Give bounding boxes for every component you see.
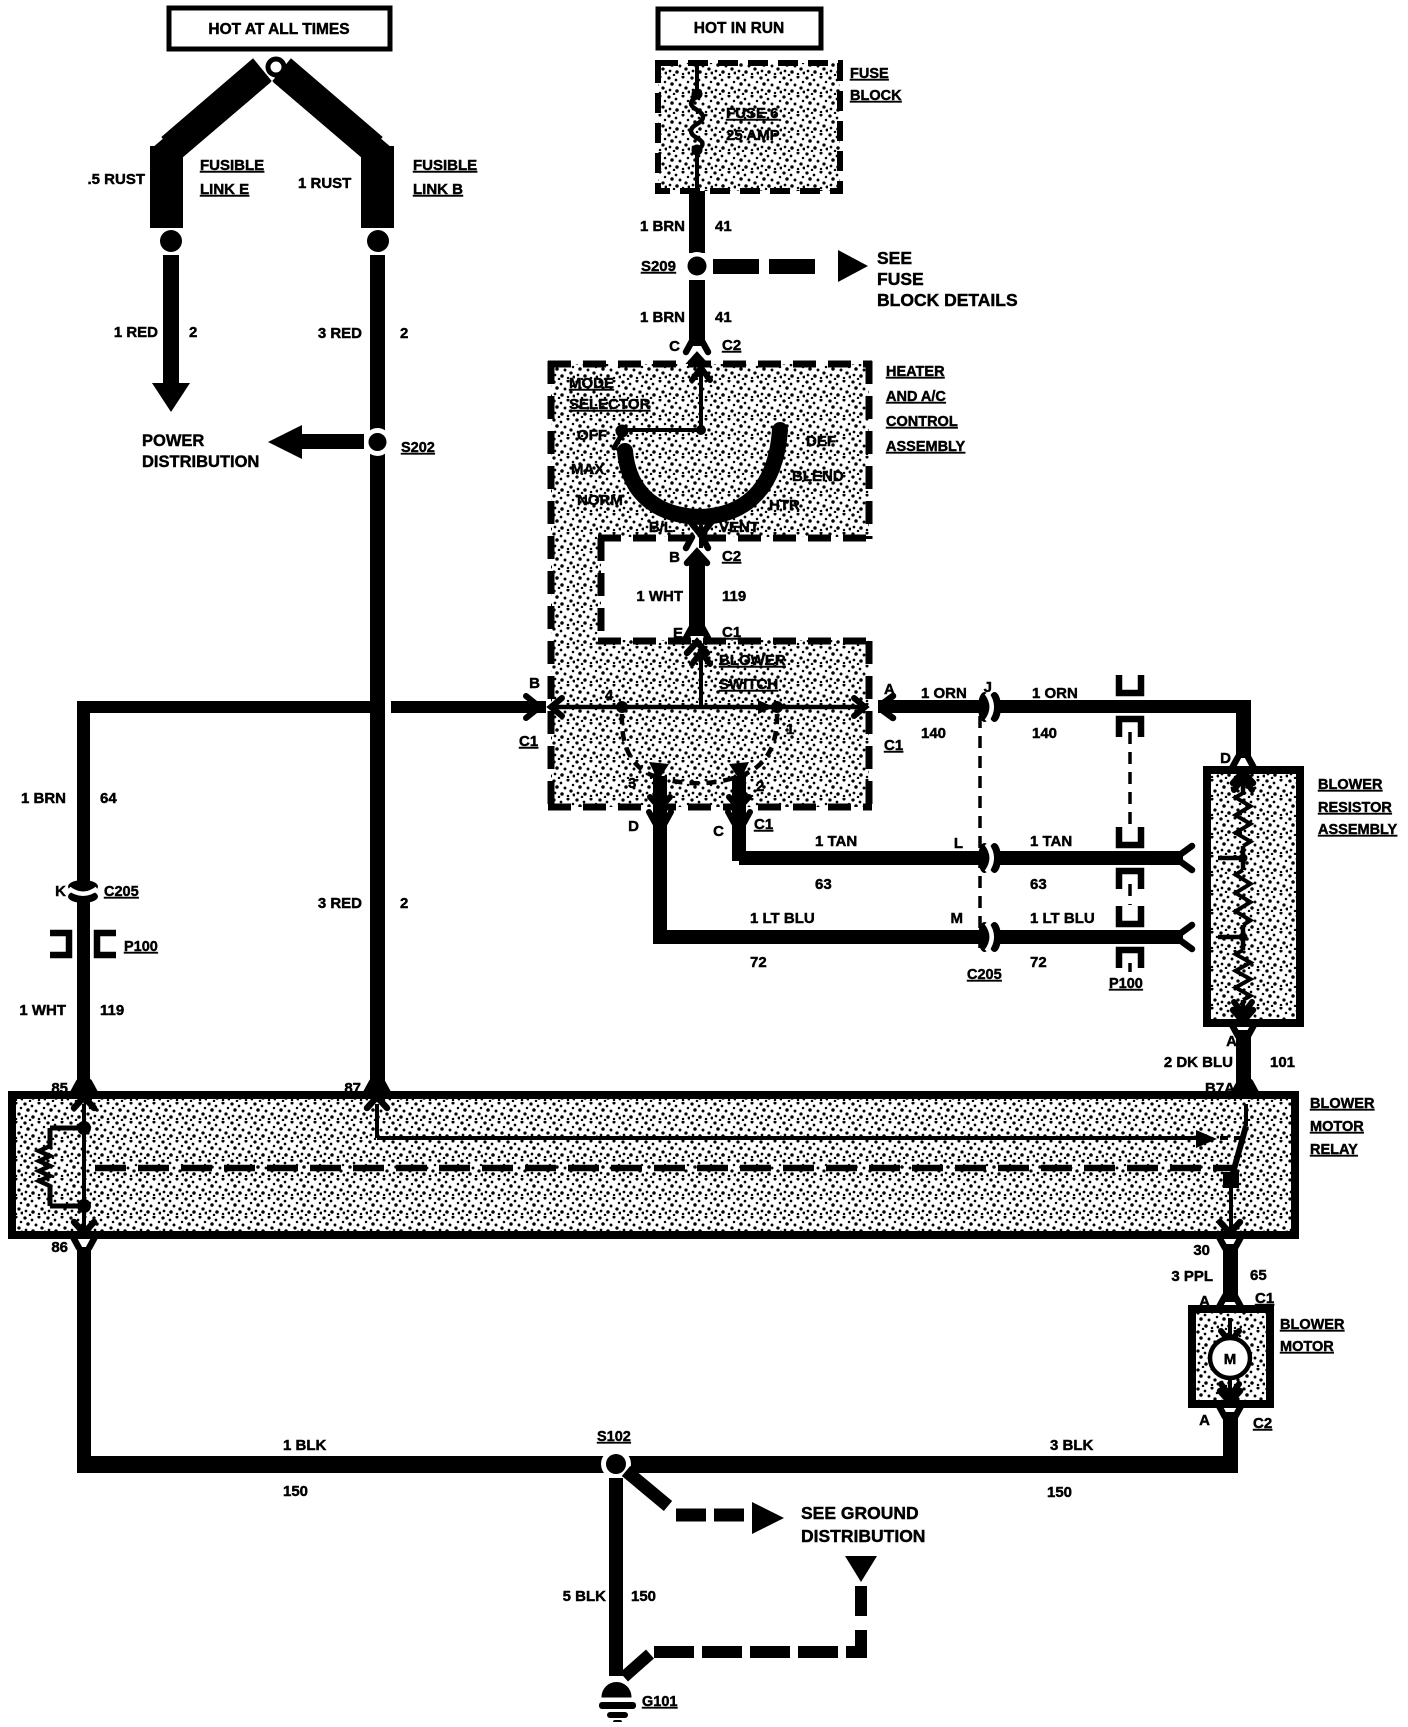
svg-text:1 ORN: 1 ORN bbox=[1032, 685, 1078, 702]
svg-text:1 LT BLU: 1 LT BLU bbox=[750, 910, 815, 927]
relay contact from B7A bbox=[1231, 1104, 1246, 1180]
svg-text:2 DK BLU: 2 DK BLU bbox=[1164, 1054, 1233, 1071]
label 5 BLK bbox=[563, 1588, 607, 1605]
fuse F6 25A bbox=[691, 89, 703, 192]
label 41 lower bbox=[715, 309, 732, 326]
svg-text:DISTRIBUTION: DISTRIBUTION bbox=[801, 1526, 925, 1546]
label P100 left bbox=[124, 939, 158, 955]
label 4 bbox=[605, 687, 614, 704]
fusible link E band bbox=[150, 59, 271, 228]
svg-text:S209: S209 bbox=[641, 258, 676, 275]
relay switch arrow bbox=[1196, 1130, 1217, 1148]
label 1 RUST bbox=[298, 175, 351, 192]
resistor junction B bbox=[1218, 925, 1248, 942]
relay coil junction bottom bbox=[77, 1199, 91, 1213]
connector P100 bracket at ORN bbox=[1119, 675, 1141, 737]
svg-text:DISTRIBUTION: DISTRIBUTION bbox=[142, 453, 259, 471]
fusible link B band bbox=[273, 59, 394, 228]
label C bbox=[669, 338, 680, 355]
svg-text:3: 3 bbox=[628, 775, 636, 792]
wire 1 BRN 41 lower bbox=[689, 280, 705, 346]
svg-text:A: A bbox=[884, 681, 895, 698]
label M bbox=[951, 910, 964, 927]
svg-text:A: A bbox=[1199, 1412, 1210, 1429]
svg-text:1 BRN: 1 BRN bbox=[21, 790, 66, 807]
blower motor pin A bottom connector bbox=[1219, 1391, 1241, 1417]
label 3 bbox=[628, 775, 636, 792]
label C205 left bbox=[104, 884, 139, 900]
wire 3 RED 2 bbox=[370, 255, 385, 1095]
svg-text:30: 30 bbox=[1193, 1242, 1210, 1259]
motor M circle bbox=[1210, 1338, 1250, 1378]
label BLOWER MOTOR RELAY bbox=[1310, 1096, 1375, 1158]
svg-text:BLOCK: BLOCK bbox=[850, 88, 902, 104]
svg-text:150: 150 bbox=[283, 1483, 308, 1500]
svg-text:1 WHT: 1 WHT bbox=[636, 588, 683, 605]
relay coil bbox=[39, 1128, 84, 1206]
ground G101 symbol bbox=[599, 1683, 636, 1725]
svg-text:25 AMP: 25 AMP bbox=[726, 127, 780, 144]
label 30 bbox=[1193, 1242, 1210, 1259]
svg-text:HOT IN RUN: HOT IN RUN bbox=[694, 20, 784, 37]
svg-text:BLOWER: BLOWER bbox=[1310, 1096, 1375, 1112]
switch position 2 arrow bbox=[729, 762, 749, 781]
svg-text:140: 140 bbox=[1032, 725, 1057, 742]
switch position 4 contact bbox=[616, 701, 628, 713]
connector C2 pin C bbox=[686, 341, 708, 367]
label VENT bbox=[719, 519, 759, 536]
resistor pin B chevron bbox=[1212, 928, 1223, 946]
svg-text:VENT: VENT bbox=[719, 519, 759, 536]
svg-text:SEE GROUND: SEE GROUND bbox=[801, 1503, 919, 1523]
svg-text:G101: G101 bbox=[642, 1694, 677, 1710]
svg-text:SWITCH: SWITCH bbox=[719, 676, 778, 693]
svg-text:119: 119 bbox=[100, 1002, 124, 1019]
wire 1 LT BLU 72 bbox=[653, 930, 1183, 944]
blower switch pin A chevron bbox=[854, 698, 865, 716]
label C1 switch right bbox=[884, 737, 903, 754]
svg-text:NORM: NORM bbox=[577, 492, 623, 509]
splice S102 bbox=[601, 1449, 631, 1479]
relay pin B7A connector bbox=[1234, 1082, 1256, 1108]
svg-text:1: 1 bbox=[786, 721, 794, 738]
connector A fork bbox=[882, 696, 893, 718]
resistor junction C bbox=[1218, 846, 1248, 863]
switch position 1 contact bbox=[758, 700, 783, 714]
label HEATER AND A/C CONTROL ASSEMBLY bbox=[886, 364, 966, 455]
svg-text:POWER: POWER bbox=[142, 432, 204, 450]
svg-text:5 BLK: 5 BLK bbox=[563, 1588, 607, 1605]
label B bbox=[669, 549, 680, 566]
svg-text:1 BRN: 1 BRN bbox=[640, 218, 685, 235]
wire 1 ORN 140 bbox=[878, 700, 1251, 758]
label 1 bbox=[786, 721, 794, 738]
label 85 bbox=[51, 1080, 68, 1097]
svg-text:140: 140 bbox=[921, 725, 946, 742]
blower resistor assembly box bbox=[1207, 770, 1300, 1023]
svg-text:SELECTOR: SELECTOR bbox=[569, 396, 651, 413]
svg-text:MAX: MAX bbox=[571, 461, 604, 478]
svg-text:C2: C2 bbox=[722, 548, 741, 565]
heater box left edge bbox=[548, 361, 555, 810]
label D bbox=[628, 818, 639, 835]
label C pin bbox=[713, 823, 724, 840]
svg-text:MODE: MODE bbox=[569, 375, 614, 392]
label 87 bbox=[344, 1080, 361, 1097]
svg-text:72: 72 bbox=[750, 954, 767, 971]
label 65 bbox=[1250, 1267, 1267, 1284]
svg-text:86: 86 bbox=[51, 1239, 68, 1256]
svg-text:87: 87 bbox=[344, 1080, 361, 1097]
svg-text:FUSE: FUSE bbox=[877, 269, 924, 289]
wire 5 BLK 150 bbox=[609, 1478, 623, 1676]
relay coil feed line bbox=[82, 1104, 86, 1230]
wire below K bbox=[0, 0, 1, 1]
svg-text:ASSEMBLY: ASSEMBLY bbox=[1318, 822, 1398, 838]
svg-text:119: 119 bbox=[722, 588, 746, 605]
dashed wire to ground distribution bbox=[626, 1471, 744, 1515]
connector P100 left bbox=[50, 933, 116, 955]
svg-text:C1: C1 bbox=[722, 624, 741, 641]
svg-text:P100: P100 bbox=[1109, 976, 1143, 992]
relay switch feed line bbox=[377, 1104, 1196, 1138]
label MODE SELECTOR bbox=[569, 375, 651, 413]
svg-text:FUSIBLE: FUSIBLE bbox=[200, 157, 264, 174]
label 1 ORN right bbox=[1032, 685, 1078, 702]
svg-text:C: C bbox=[669, 338, 680, 355]
svg-text:1 RED: 1 RED bbox=[114, 324, 158, 341]
blower switch bottom edge bbox=[548, 804, 872, 811]
label FUSE 6 25 AMP bbox=[726, 105, 780, 144]
label P100 right bbox=[1109, 976, 1143, 992]
svg-text:ASSEMBLY: ASSEMBLY bbox=[886, 439, 966, 455]
label BLOWER MOTOR bbox=[1280, 1317, 1345, 1355]
label SEE FUSE BLOCK DETAILS bbox=[877, 248, 1018, 310]
connector P100 line 3 bbox=[1128, 963, 1132, 972]
heater box top edge bbox=[548, 361, 872, 368]
label 150 left bbox=[283, 1483, 308, 1500]
switch B fork bbox=[526, 696, 536, 718]
label 1 WHT left bbox=[19, 1002, 66, 1019]
node battery feed ring bbox=[268, 59, 284, 75]
motor out arrow bbox=[1221, 1378, 1239, 1396]
svg-text:RESISTOR: RESISTOR bbox=[1318, 800, 1392, 816]
label box HOT IN RUN bbox=[658, 9, 821, 48]
svg-text:3 BLK: 3 BLK bbox=[1050, 1437, 1094, 1454]
label 1 RED bbox=[114, 324, 158, 341]
label 1 LT BLU left bbox=[750, 910, 815, 927]
label 1 ORN left bbox=[921, 685, 967, 702]
label K bbox=[55, 883, 66, 900]
heater box bottom edge upper bbox=[598, 535, 869, 542]
svg-text:1 TAN: 1 TAN bbox=[815, 833, 857, 850]
label C2 inner bbox=[722, 548, 741, 565]
svg-text:C205: C205 bbox=[967, 967, 1002, 983]
svg-text:C1: C1 bbox=[754, 816, 773, 833]
label 150 ground bbox=[631, 1588, 656, 1605]
label 1 BRN upper bbox=[640, 218, 685, 235]
motor feed arrow bbox=[1221, 1318, 1239, 1342]
svg-text:FUSE: FUSE bbox=[850, 66, 889, 82]
label C2 motor bbox=[1253, 1415, 1272, 1432]
connector C1 pin D bbox=[649, 797, 671, 823]
svg-text:1 ORN: 1 ORN bbox=[921, 685, 967, 702]
label 1 WHT inner bbox=[636, 588, 683, 605]
svg-text:1 BLK: 1 BLK bbox=[283, 1437, 327, 1454]
ground return dashed wire bbox=[624, 1586, 861, 1677]
relay pin 85 connector bbox=[73, 1082, 95, 1108]
relay pin 86 connector bbox=[73, 1222, 95, 1248]
svg-text:1 RUST: 1 RUST bbox=[298, 175, 351, 192]
resistor element 2 bbox=[1236, 858, 1251, 925]
svg-text:P100: P100 bbox=[124, 939, 158, 955]
label 119 inner bbox=[722, 588, 746, 605]
svg-text:C1: C1 bbox=[884, 737, 903, 754]
splice dot right bbox=[367, 230, 389, 252]
mode selector wire to OFF bbox=[624, 425, 706, 435]
heater a/c control assembly fill bbox=[551, 364, 869, 807]
connector C205 pin L bbox=[978, 843, 1001, 873]
relay contact pad bbox=[1223, 1172, 1239, 1188]
label C1 switch bbox=[754, 816, 773, 833]
svg-text:SEE: SEE bbox=[877, 248, 912, 268]
label C2 top bbox=[722, 337, 741, 354]
svg-text:1 TAN: 1 TAN bbox=[1030, 833, 1072, 850]
label 63 right bbox=[1030, 876, 1047, 893]
svg-text:A: A bbox=[1226, 1033, 1237, 1050]
svg-text:FUSE 6: FUSE 6 bbox=[726, 105, 779, 122]
svg-text:3 RED: 3 RED bbox=[318, 325, 362, 342]
wire blower switch B horizontal bbox=[77, 701, 546, 713]
label 72 right bbox=[1030, 954, 1047, 971]
svg-text:L: L bbox=[954, 835, 963, 852]
svg-text:.5 RUST: .5 RUST bbox=[87, 171, 145, 188]
blower switch feed arrow bbox=[692, 652, 710, 709]
relay pin 87 connector bbox=[366, 1082, 388, 1108]
svg-text:C205: C205 bbox=[104, 884, 139, 900]
label 3 RED lower bbox=[318, 895, 362, 912]
svg-text:B: B bbox=[669, 549, 680, 566]
connector P100 bracket at LT BLU bbox=[1119, 906, 1141, 968]
resistor chain top arrow bbox=[1234, 778, 1252, 795]
svg-text:C: C bbox=[713, 823, 724, 840]
resistor pin C chevron bbox=[1212, 849, 1223, 867]
label C205 right bbox=[967, 967, 1002, 983]
label BLEND bbox=[792, 468, 844, 485]
label 3 BLK bbox=[1050, 1437, 1094, 1454]
svg-text:BLOWER: BLOWER bbox=[1280, 1317, 1345, 1333]
svg-text:C2: C2 bbox=[722, 337, 741, 354]
svg-text:LINK B: LINK B bbox=[413, 181, 463, 198]
svg-text:64: 64 bbox=[100, 790, 117, 807]
label 1 BLK bbox=[283, 1437, 327, 1454]
label BLOWER RESISTOR ASSEMBLY bbox=[1318, 777, 1398, 838]
label G101 bbox=[642, 1694, 677, 1710]
label 150 right bbox=[1047, 1484, 1072, 1501]
svg-text:D: D bbox=[1220, 750, 1231, 767]
relay actuation dashed line bbox=[95, 1165, 1232, 1172]
splice S209 bbox=[683, 252, 711, 280]
svg-text:FUSIBLE: FUSIBLE bbox=[413, 157, 477, 174]
connector C1 pin E bbox=[686, 627, 708, 653]
svg-text:63: 63 bbox=[1030, 876, 1047, 893]
label 41 upper bbox=[715, 218, 732, 235]
connector C205 pin J bbox=[978, 692, 1001, 722]
label 101 bbox=[1270, 1054, 1295, 1071]
label 72 left bbox=[750, 954, 767, 971]
wire 1 WHT 119 inner bbox=[689, 556, 705, 636]
svg-text:C1: C1 bbox=[1255, 1290, 1274, 1307]
svg-text:150: 150 bbox=[631, 1588, 656, 1605]
svg-text:M: M bbox=[951, 910, 964, 927]
switch position 3 arrow bbox=[649, 762, 669, 781]
svg-text:M: M bbox=[1224, 1351, 1237, 1368]
resistor pin D connector bbox=[1232, 757, 1254, 783]
svg-text:S202: S202 bbox=[401, 440, 435, 456]
label 86 bbox=[51, 1239, 68, 1256]
wire 1 BRN 41 upper bbox=[689, 191, 705, 253]
connector P100 bracket at TAN bbox=[1119, 827, 1141, 889]
svg-text:AND A/C: AND A/C bbox=[886, 389, 946, 405]
label D resistor bbox=[1220, 750, 1231, 767]
label B7A bbox=[1205, 1080, 1235, 1097]
blower switch common wire bbox=[556, 705, 865, 710]
svg-text:D: D bbox=[628, 818, 639, 835]
wire 3 PPL 65 bbox=[1223, 1244, 1238, 1302]
svg-text:41: 41 bbox=[715, 309, 732, 326]
svg-text:2: 2 bbox=[189, 324, 197, 341]
svg-text:S102: S102 bbox=[597, 1429, 631, 1445]
mode selector feed arrow bbox=[692, 368, 710, 430]
label 63 left bbox=[815, 876, 832, 893]
svg-text:HTR: HTR bbox=[769, 497, 800, 514]
wire 2 DK BLU 101 bbox=[1236, 1030, 1251, 1092]
label A resistor bbox=[1226, 1033, 1237, 1050]
svg-text:BLEND: BLEND bbox=[792, 468, 844, 485]
resistor pin A connector bbox=[1232, 1010, 1254, 1036]
connector C205 pin M bbox=[978, 922, 1001, 952]
label A motor top bbox=[1199, 1293, 1210, 1310]
svg-text:150: 150 bbox=[1047, 1484, 1072, 1501]
svg-text:MOTOR: MOTOR bbox=[1280, 1339, 1334, 1355]
svg-text:65: 65 bbox=[1250, 1267, 1267, 1284]
label DEF bbox=[806, 433, 836, 450]
splice S202 bbox=[364, 428, 392, 456]
svg-text:RELAY: RELAY bbox=[1310, 1142, 1358, 1158]
label 140 right bbox=[1032, 725, 1057, 742]
resistor element 3 bbox=[1236, 937, 1251, 1000]
wire from position 2 to C bbox=[732, 776, 746, 861]
connector C205 line bbox=[978, 716, 982, 955]
svg-text:LINK E: LINK E bbox=[200, 181, 249, 198]
ground bus wire 1 BLK / 3 BLK bbox=[77, 1456, 1238, 1473]
resistor chain bottom arrow bbox=[1234, 1000, 1252, 1014]
mode selector OFF contact bbox=[614, 425, 629, 449]
svg-text:1 WHT: 1 WHT bbox=[19, 1002, 66, 1019]
blower motor pin A top connector bbox=[1219, 1296, 1241, 1322]
fuse block box bbox=[658, 63, 840, 191]
label OFF bbox=[577, 427, 607, 444]
fork into resistor pin C bbox=[1181, 846, 1192, 870]
switch wiper dashed arc bbox=[622, 714, 777, 783]
label HTR bbox=[769, 497, 800, 514]
connector P100 line 2 bbox=[1128, 884, 1132, 905]
svg-text:B/L: B/L bbox=[649, 519, 673, 536]
label S209 bbox=[641, 258, 676, 275]
wire into fuse bbox=[695, 64, 699, 92]
label A motor bottom bbox=[1199, 1412, 1210, 1429]
label 1 BRN lower bbox=[640, 309, 685, 326]
svg-text:4: 4 bbox=[605, 687, 614, 704]
label BLOWER SWITCH bbox=[719, 652, 786, 693]
arrow to power distribution (down) bbox=[152, 383, 190, 412]
mode selector output arrow bbox=[689, 520, 713, 548]
label 119 left bbox=[100, 1002, 124, 1019]
svg-text:HEATER: HEATER bbox=[886, 364, 945, 380]
label NORM bbox=[577, 492, 623, 509]
svg-text:HOT AT ALL TIMES: HOT AT ALL TIMES bbox=[208, 21, 349, 38]
wire 1 TAN 63 bbox=[739, 851, 1183, 865]
svg-text:63: 63 bbox=[815, 876, 832, 893]
svg-text:K: K bbox=[55, 883, 66, 900]
label 2 DK BLU bbox=[1164, 1054, 1233, 1071]
svg-text:BLOWER: BLOWER bbox=[1318, 777, 1383, 793]
svg-text:2: 2 bbox=[756, 778, 764, 795]
label .5 RUST bbox=[87, 171, 145, 188]
relay coil junction top bbox=[77, 1121, 91, 1135]
splice dot left bbox=[160, 230, 182, 252]
label MAX bbox=[571, 461, 604, 478]
svg-text:2: 2 bbox=[400, 325, 408, 342]
svg-text:E: E bbox=[673, 625, 683, 642]
resistor element 1 bbox=[1236, 793, 1251, 846]
relay contact to pin 30 bbox=[1229, 1186, 1233, 1230]
svg-text:2: 2 bbox=[400, 895, 408, 912]
svg-text:72: 72 bbox=[1030, 954, 1047, 971]
heater box right edge upper bbox=[866, 361, 873, 539]
label FUSIBLE LINK E bbox=[200, 157, 264, 198]
inner notch left edge bbox=[598, 538, 605, 641]
label 3 PPL bbox=[1171, 1268, 1213, 1285]
label 64 bbox=[100, 790, 117, 807]
connector C2 pin B bbox=[686, 537, 708, 563]
label 2 bbox=[189, 324, 197, 341]
blower switch pin B chevron bbox=[551, 698, 562, 716]
blower switch top edge bbox=[598, 638, 872, 645]
label S202 bbox=[401, 440, 435, 456]
label C1 motor bbox=[1255, 1290, 1274, 1307]
svg-text:41: 41 bbox=[715, 218, 732, 235]
wire from position 3 to D bbox=[653, 776, 667, 938]
ground return arrow (down) bbox=[845, 1556, 877, 1582]
svg-text:101: 101 bbox=[1270, 1054, 1295, 1071]
svg-text:1 BRN: 1 BRN bbox=[640, 309, 685, 326]
svg-text:BLOCK DETAILS: BLOCK DETAILS bbox=[877, 290, 1018, 310]
label C1 switch left bbox=[519, 733, 538, 750]
dashed arrow to fuse block details bbox=[713, 250, 868, 282]
fork into resistor pin B bbox=[1181, 925, 1192, 949]
label A switch bbox=[884, 681, 895, 698]
blower motor box bbox=[1192, 1309, 1270, 1404]
label 2 bbox=[756, 778, 764, 795]
label B switch bbox=[529, 675, 540, 692]
svg-text:C2: C2 bbox=[1253, 1415, 1272, 1432]
relay pin 30 connector bbox=[1219, 1222, 1241, 1248]
connector C205 pin K bbox=[68, 880, 98, 903]
svg-text:3 PPL: 3 PPL bbox=[1171, 1268, 1213, 1285]
svg-text:OFF: OFF bbox=[577, 427, 607, 444]
mode selector dial arc bbox=[625, 430, 780, 517]
